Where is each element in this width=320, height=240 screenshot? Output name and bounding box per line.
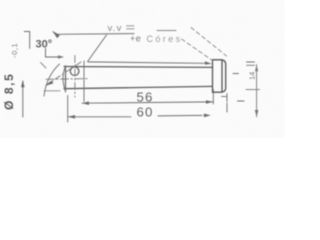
- note overline: [157, 30, 176, 32]
- extension line left: [67, 96, 69, 123]
- note underline / 30deg leader: [56, 33, 135, 36]
- horizontal centerline: [46, 78, 88, 81]
- pin left end edge: [65, 66, 67, 92]
- dashed leaders to head top: [191, 28, 227, 57]
- svg-text:14: 14: [248, 72, 257, 80]
- svg-text:60: 60: [137, 104, 154, 119]
- diameter dimension arrow: [22, 81, 24, 117]
- pin left dome arc: [63, 66, 66, 91]
- note leader: horizontal line to head: [88, 62, 206, 63]
- arrowhead of note leader: [53, 32, 60, 39]
- svg-text:Ø 8,5: Ø 8,5: [2, 73, 16, 110]
- head of pin: [213, 60, 226, 93]
- right head dimension line: [256, 65, 258, 117]
- svg-text:30°: 30°: [36, 38, 53, 50]
- svg-text:v.v: v.v: [108, 23, 123, 34]
- dash-dot leader to dome: [46, 62, 81, 85]
- pin body bottom edge: [64, 86, 213, 88]
- diagonal from note to leader: [88, 35, 107, 62]
- vertical centerline of hole: [74, 56, 76, 98]
- svg-text:-0,1: -0,1: [10, 43, 19, 58]
- svg-text:+e: +e: [130, 34, 141, 44]
- arrowhead at head: [205, 61, 212, 64]
- pin body top edge: [64, 66, 213, 69]
- right head dimension stubs: [233, 62, 255, 74]
- vertical reference line with tick: [24, 32, 29, 49]
- arrowhead at dome: [45, 81, 54, 86]
- hole extension line: [83, 61, 85, 102]
- bent leader under 30: [46, 49, 63, 58]
- chamfer construction line: [44, 64, 60, 96]
- extension line head right: [226, 94, 228, 113]
- svg-text:Córes: Córes: [147, 34, 183, 44]
- extension line head left face: [213, 90, 244, 105]
- left end bottom stub: [41, 63, 61, 91]
- split-pin hole: [70, 67, 79, 76]
